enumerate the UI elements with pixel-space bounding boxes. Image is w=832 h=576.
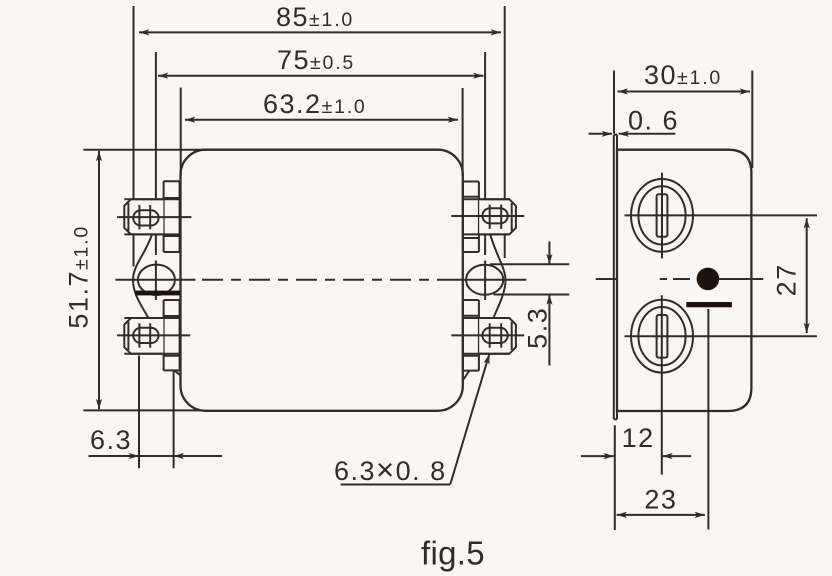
filter body outline side view xyxy=(617,150,751,411)
dimension 5.3 extension line upper xyxy=(490,263,569,265)
27 dim extension / terminal centerline top xyxy=(625,214,818,216)
dimension 63.2±1.0 extension line right xyxy=(462,88,464,176)
caption fig.5 xyxy=(421,535,485,572)
dimension 5.3 extension line lower xyxy=(494,294,570,296)
dimension 30±1.0 extension line left xyxy=(613,71,615,134)
label 75±0.5 xyxy=(277,45,355,75)
dimension 5.3 arrow lower xyxy=(548,295,550,366)
right mounting bracket strip lower segment xyxy=(462,300,464,371)
right bracket bend curve xyxy=(490,234,505,318)
label 5.3 (rotated) xyxy=(523,307,553,349)
svg-text:5.3: 5.3 xyxy=(523,307,553,349)
terminal lug top-right body xyxy=(479,199,516,234)
dimension 6.3 extension line left xyxy=(138,356,140,469)
dimension 51.7±1.0 extension line top xyxy=(83,149,206,151)
dimension 23 extension line right xyxy=(707,309,709,530)
dimension line 63.2±1.0 xyxy=(185,119,458,121)
terminal lug bottom-left screw slot xyxy=(133,328,158,343)
side view centerline segments xyxy=(596,278,618,280)
dimension 63.2±1.0 extension line left xyxy=(180,88,182,177)
right tab-to-body bend line xyxy=(463,371,470,381)
label 12 xyxy=(622,423,655,453)
dimension line 85±1.0 xyxy=(139,31,501,33)
dimension line 75±0.5 xyxy=(158,75,484,77)
svg-text:6.3: 6.3 xyxy=(90,425,132,455)
left wire entry circle xyxy=(138,265,175,295)
dimension 30±1.0 extension line right xyxy=(751,71,753,169)
oval terminal bottom (side view) xyxy=(631,300,693,373)
left circle vertical centerline xyxy=(155,234,157,255)
side faston tab (bold bar) xyxy=(686,302,732,307)
terminal lug top-right screw slot xyxy=(482,208,507,223)
right wire entry circle xyxy=(466,265,503,295)
svg-text:6.3×0. 8: 6.3×0. 8 xyxy=(334,452,447,487)
label 27 (rotated) xyxy=(772,263,802,296)
left tab-to-body bend line xyxy=(174,370,181,375)
label 23 xyxy=(644,485,677,515)
dimension 85±1.0 extension line right xyxy=(504,6,506,199)
left centerline solid segment xyxy=(115,279,195,281)
dimension 6.3 extension line right xyxy=(173,370,175,469)
svg-text:30±1.0: 30±1.0 xyxy=(644,60,722,90)
svg-text:12: 12 xyxy=(622,423,655,453)
label 6.3×0.8 with underline xyxy=(334,452,447,487)
dimension line 6.3 with outside arrows xyxy=(89,455,140,457)
dimension 85±1.0 extension line left xyxy=(133,6,135,199)
dimension 75±0.5 extension line right xyxy=(484,52,486,199)
label 6.3 xyxy=(90,425,132,455)
left faston tab (bold bar) xyxy=(136,291,180,296)
terminal lug bottom-right screw slot xyxy=(482,328,507,343)
svg-text:63.2±1.0: 63.2±1.0 xyxy=(263,89,367,119)
svg-text:fig.5: fig.5 xyxy=(421,535,485,572)
left bracket bend curve xyxy=(133,234,152,318)
left mounting bracket strip lower segment xyxy=(163,300,165,370)
dimension 85 extension continuation below top-right lug xyxy=(504,234,506,258)
27 dim extension / terminal centerline bottom xyxy=(625,335,818,337)
dimension 5.3 arrow upper xyxy=(548,242,550,265)
dimension 12/23 extension line left xyxy=(614,425,616,530)
dimension 0.6 outside arrow left xyxy=(589,133,613,135)
left mounting bracket strip upper segment xyxy=(163,181,165,252)
terminal lug bottom-right body xyxy=(479,318,516,354)
svg-text:75±0.5: 75±0.5 xyxy=(277,45,355,75)
mounting flange plate (side view) xyxy=(613,135,615,420)
terminal lug top-left body xyxy=(124,199,163,234)
label 63.2±1.0 xyxy=(263,89,367,119)
dimension 51.7±1.0 extension line bottom xyxy=(83,409,200,411)
svg-text:0. 6: 0. 6 xyxy=(628,106,679,136)
terminal lug bottom-left body xyxy=(124,318,163,354)
filter body outline front view xyxy=(181,150,463,411)
svg-text:51.7±1.0: 51.7±1.0 xyxy=(64,225,94,329)
ground dot (filled) xyxy=(697,268,720,291)
label 0.6 xyxy=(628,106,679,136)
right centerline solid segment xyxy=(446,279,526,281)
dimension line 30±1.0 xyxy=(618,91,750,93)
right mounting bracket strip upper segment xyxy=(462,182,464,253)
dimension line 12 with outside arrows xyxy=(581,455,614,457)
leader line to terminal lug xyxy=(450,354,489,485)
dimension 85 extension continuation below top-left lug xyxy=(133,234,135,266)
label 30±1.0 xyxy=(644,60,722,90)
dimension 75±0.5 extension line left xyxy=(155,52,157,199)
dimension line 51.7±1.0 xyxy=(98,151,100,409)
dimension line 27 xyxy=(806,218,808,333)
dashed horizontal centerline xyxy=(202,279,446,281)
svg-text:23: 23 xyxy=(644,485,677,515)
svg-text:27: 27 xyxy=(772,263,802,296)
dimension 0.6 arrow and underline xyxy=(619,133,676,135)
oval terminal top (side view) xyxy=(631,179,693,252)
svg-text:85±1.0: 85±1.0 xyxy=(276,2,354,32)
dimension line 23 xyxy=(617,514,705,516)
terminal lug top-left screw slot xyxy=(133,210,158,225)
label 51.7±1.0 (rotated) xyxy=(64,225,94,329)
label 85±1.0 xyxy=(276,2,354,32)
right circle vertical centerline xyxy=(484,234,486,255)
